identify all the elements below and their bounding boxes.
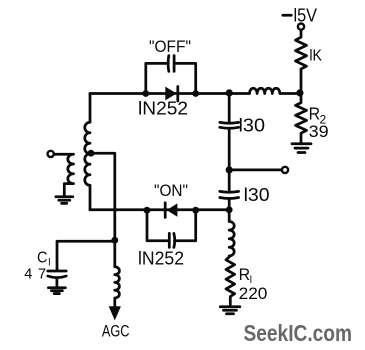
svg-text:C: C <box>37 250 48 267</box>
svg-text:AGC: AGC <box>102 322 130 341</box>
svg-text:SeekIC.com: SeekIC.com <box>244 320 353 346</box>
svg-text:lK: lK <box>309 48 322 65</box>
svg-text:4: 4 <box>24 267 32 283</box>
svg-text:"ON": "ON" <box>154 182 188 200</box>
svg-text:l: l <box>48 258 50 269</box>
svg-text:39: 39 <box>309 122 329 141</box>
svg-text:lN252: lN252 <box>138 99 188 119</box>
svg-text:l30: l30 <box>239 116 266 136</box>
svg-text:220: 220 <box>239 284 268 303</box>
svg-text:l30: l30 <box>244 185 270 205</box>
svg-text:lN252: lN252 <box>138 249 184 269</box>
svg-text:"OFF": "OFF" <box>149 38 191 56</box>
svg-text:7: 7 <box>38 267 46 283</box>
svg-text:R: R <box>239 266 251 284</box>
svg-text:R: R <box>309 104 321 124</box>
svg-text:l5V: l5V <box>294 6 318 26</box>
